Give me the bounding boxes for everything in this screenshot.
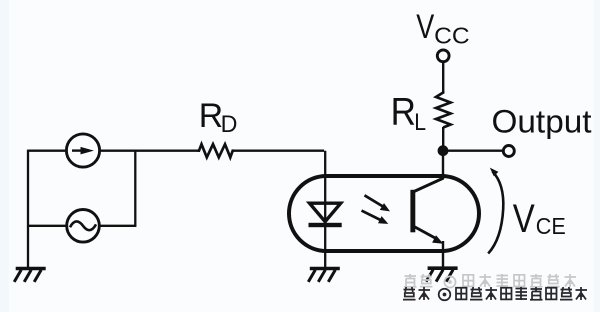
svg-text:D: D [221, 111, 238, 138]
svg-text:CE: CE [536, 213, 566, 239]
ground under transistor [426, 268, 458, 281]
wire emitter to ground [442, 241, 444, 267]
label RL [391, 91, 426, 136]
wire VCC to RL [442, 62, 444, 93]
wire RD to optocoupler with corner [232, 151, 326, 268]
ac source V1 [67, 210, 100, 243]
svg-text:L: L [414, 109, 426, 136]
wire AC source left [28, 225, 67, 227]
svg-text:CC: CC [434, 22, 470, 48]
transistor Q1 [410, 178, 443, 244]
LED D1 [309, 203, 342, 227]
optocoupler U1 body [289, 176, 479, 251]
wire RL to node [442, 127, 444, 150]
label VCE [513, 197, 566, 241]
light arrow 1 [365, 195, 391, 211]
node collector junction [438, 145, 449, 156]
resistor RL [436, 92, 451, 128]
wire collector to node [442, 152, 444, 179]
wire top main [100, 150, 198, 152]
ground left [14, 269, 46, 282]
svg-text:Output: Output [492, 103, 592, 139]
terminal Output [503, 146, 514, 157]
label VCC [416, 8, 469, 49]
terminal VCC [437, 50, 449, 62]
background edge tint left [0, 0, 9, 312]
svg-text:R: R [391, 91, 416, 134]
current source I1 [66, 134, 99, 167]
background edge tint right [594, 0, 600, 312]
light arrow 2 [362, 211, 389, 224]
ground under LED [308, 269, 340, 282]
label RD [199, 97, 238, 138]
wire AC source right [99, 225, 136, 227]
VCE arc arrow [488, 168, 503, 254]
svg-text:V: V [416, 8, 434, 46]
svg-text:V: V [513, 197, 535, 241]
svg-text:R: R [199, 97, 223, 135]
watermark line 2 dark [403, 287, 587, 300]
wire node to output [443, 149, 504, 151]
watermark line 1 gray [404, 274, 576, 288]
wire left rail [28, 150, 67, 268]
resistor RD [198, 144, 235, 157]
wire branch to AC source [134, 151, 136, 226]
